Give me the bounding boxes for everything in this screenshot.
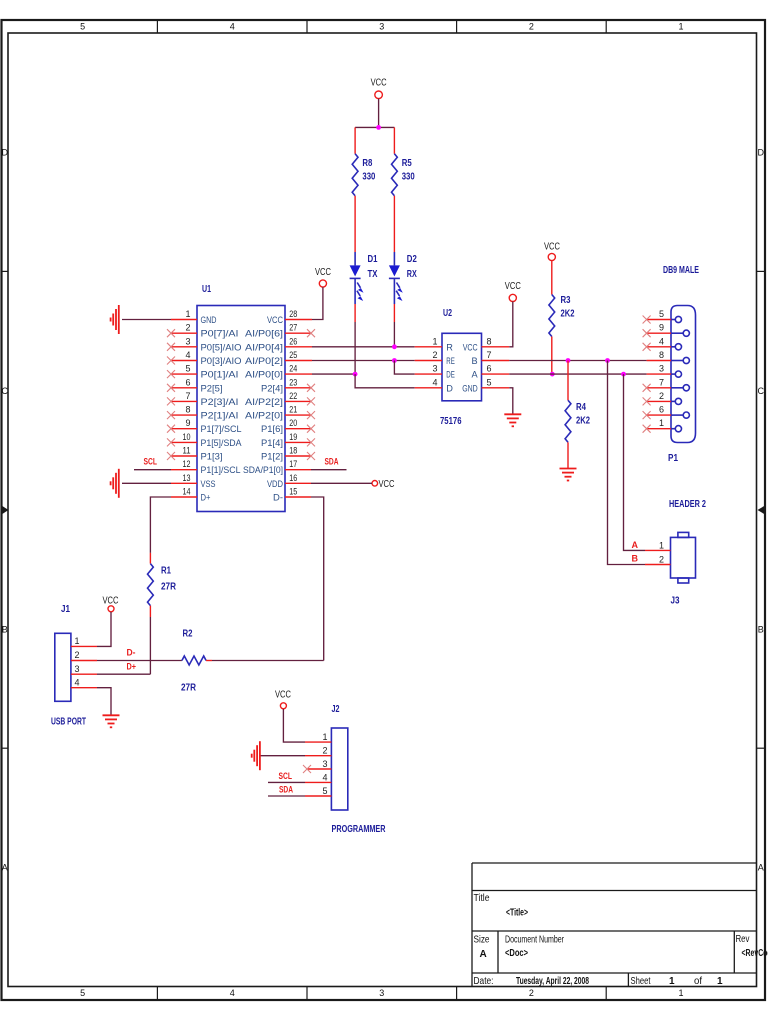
- svg-text:27R: 27R: [181, 683, 197, 694]
- svg-text:1: 1: [75, 636, 80, 646]
- wire B branch to J3 pin2: [608, 361, 646, 565]
- wire J1 pin1 to VCC: [97, 612, 111, 646]
- svg-text:3: 3: [322, 759, 327, 769]
- svg-text:17: 17: [289, 459, 297, 469]
- svg-text:8: 8: [659, 350, 664, 360]
- U1 right pin numbers: [289, 309, 297, 497]
- svg-text:7: 7: [659, 377, 664, 387]
- svg-text:R1: R1: [161, 566, 171, 577]
- svg-text:GND: GND: [201, 315, 217, 325]
- wire R8 to D1: [354, 196, 356, 252]
- wire D net U1 pin24: [312, 373, 355, 375]
- svg-text:4: 4: [432, 377, 437, 387]
- svg-text:10: 10: [183, 432, 191, 442]
- svg-text:VCC: VCC: [544, 241, 560, 252]
- wire D2 to R net: [393, 278, 395, 304]
- junction D net / D1: [353, 372, 358, 377]
- svg-text:2: 2: [432, 350, 437, 360]
- svg-text:21: 21: [289, 405, 297, 415]
- svg-text:RX: RX: [407, 269, 417, 280]
- svg-text:J2: J2: [332, 704, 340, 715]
- wire U1 pin16 to VCC: [311, 482, 372, 484]
- U1 no-connect x marks left pins 2-11: [167, 329, 175, 460]
- junction R3 / A net: [550, 372, 555, 377]
- resistor R1: [147, 553, 176, 606]
- svg-text:P1: P1: [668, 453, 678, 464]
- svg-text:2K2: 2K2: [561, 309, 575, 320]
- svg-text:A: A: [480, 949, 487, 960]
- svg-text:P1[3]: P1[3]: [201, 452, 223, 462]
- ground at R4: [560, 469, 577, 481]
- frame right center arrow: [758, 506, 766, 515]
- junction R net / D2: [392, 344, 397, 349]
- svg-text:HEADER 2: HEADER 2: [669, 499, 706, 510]
- svg-text:Title: Title: [474, 893, 490, 904]
- wire bridge over R8 R5: [355, 126, 394, 128]
- svg-text:1: 1: [659, 418, 664, 428]
- svg-text:DB9 MALE: DB9 MALE: [663, 265, 699, 276]
- wire R3 to A net: [551, 337, 553, 375]
- wire A branch to J3 pin1: [624, 374, 646, 550]
- svg-text:R8: R8: [362, 158, 372, 169]
- svg-text:B: B: [632, 554, 639, 564]
- svg-text:AI/P0[6]: AI/P0[6]: [245, 329, 283, 339]
- U2 left pin stubs: [415, 347, 442, 388]
- svg-text:5: 5: [185, 364, 190, 374]
- svg-text:R: R: [446, 342, 453, 352]
- wire J2 pin5 SDA: [268, 795, 305, 797]
- wire R4 to ground: [567, 442, 569, 468]
- U1 right pin names: [243, 315, 283, 503]
- svg-text:P0[1]/AI: P0[1]/AI: [201, 370, 239, 380]
- svg-text:4: 4: [185, 350, 190, 360]
- svg-text:Tuesday, April 22, 2008: Tuesday, April 22, 2008: [516, 976, 589, 987]
- svg-text:Sheet: Sheet: [631, 976, 651, 987]
- frame column numbers top: [80, 22, 683, 32]
- svg-text:VSS: VSS: [201, 479, 216, 489]
- wire bridge to R8: [354, 127, 356, 153]
- svg-text:23: 23: [289, 377, 297, 387]
- svg-text:330: 330: [402, 172, 415, 183]
- VCC symbol top: [371, 78, 387, 99]
- svg-text:1: 1: [185, 309, 190, 319]
- svg-text:SDA: SDA: [325, 457, 339, 467]
- svg-text:4: 4: [230, 22, 235, 32]
- wire U2 pin5 to ground: [509, 388, 513, 414]
- svg-text:3: 3: [659, 364, 664, 374]
- wire J1 pin4 to ground: [97, 688, 111, 715]
- connector J2 body: [331, 728, 347, 810]
- svg-text:B: B: [758, 624, 764, 634]
- svg-text:3: 3: [432, 364, 437, 374]
- wire VCC to R3: [551, 261, 553, 295]
- ground at U1 pin1 (sideways): [111, 305, 119, 334]
- svg-text:AI/P2[0]: AI/P2[0]: [245, 411, 283, 421]
- svg-text:VCC: VCC: [463, 342, 478, 352]
- svg-text:<Title>: <Title>: [506, 908, 528, 919]
- wire U1 pin13 to ground: [122, 482, 171, 484]
- wire RE net U1 pin25 to U2 pin2: [312, 360, 415, 362]
- wire R1 down to J1 pin3: [149, 606, 151, 617]
- U1 left pin names: [201, 315, 243, 503]
- wire U2 pin8 to VCC: [509, 302, 513, 347]
- svg-text:9: 9: [185, 418, 190, 428]
- wire U1 pin15 D- down: [311, 497, 324, 661]
- svg-text:3: 3: [75, 664, 80, 674]
- svg-text:5: 5: [487, 377, 492, 387]
- svg-text:A: A: [472, 370, 479, 380]
- svg-text:8: 8: [185, 405, 190, 415]
- svg-text:25: 25: [289, 350, 297, 360]
- svg-text:R2: R2: [183, 629, 193, 640]
- wire J1 pin2 to R2: [97, 660, 182, 662]
- resistor R2: [181, 629, 206, 694]
- svg-text:VCC: VCC: [315, 267, 331, 278]
- svg-text:D: D: [757, 148, 764, 158]
- svg-text:B: B: [2, 624, 8, 634]
- svg-text:J3: J3: [671, 596, 680, 607]
- svg-text:Date:: Date:: [474, 976, 494, 987]
- svg-text:2: 2: [529, 22, 534, 32]
- svg-text:AI/P0[2]: AI/P0[2]: [245, 356, 283, 366]
- wire R2 to D- vertical: [206, 660, 212, 662]
- VCC symbol at J2 pin1: [275, 690, 291, 709]
- wire U1 pin1 to ground: [122, 319, 171, 321]
- svg-text:VCC: VCC: [267, 315, 283, 325]
- svg-text:11: 11: [183, 446, 191, 456]
- svg-text:2: 2: [185, 323, 190, 333]
- wire U1 pin12 SCL: [134, 469, 171, 471]
- P1 pin stubs: [647, 320, 672, 429]
- svg-text:D+: D+: [201, 493, 211, 503]
- svg-text:3: 3: [185, 336, 190, 346]
- svg-text:D: D: [2, 148, 9, 158]
- ground at J1 pin4: [103, 715, 120, 727]
- svg-text:P2[4]: P2[4]: [261, 383, 283, 393]
- svg-text:7: 7: [185, 391, 190, 401]
- wire J2 pin2 to ground: [260, 755, 305, 757]
- svg-text:2K2: 2K2: [576, 416, 590, 427]
- title block lines: [472, 863, 757, 987]
- svg-text:R3: R3: [561, 295, 571, 306]
- svg-text:VCC: VCC: [103, 596, 119, 607]
- P1 pin numbers: [659, 309, 664, 428]
- svg-text:13: 13: [183, 473, 191, 483]
- svg-text:8: 8: [487, 336, 492, 346]
- svg-text:75176: 75176: [440, 416, 462, 427]
- U2 left pin numbers: [432, 336, 437, 387]
- svg-text:2: 2: [529, 988, 534, 998]
- svg-text:VCC: VCC: [379, 479, 395, 490]
- wire J2 pin1 to VCC: [283, 709, 305, 742]
- svg-text:Document Number: Document Number: [505, 935, 564, 946]
- svg-text:27R: 27R: [161, 582, 177, 593]
- junction VCC bridge: [376, 125, 381, 130]
- svg-text:15: 15: [289, 487, 297, 497]
- J1 pin numbers: [75, 636, 80, 687]
- wire U1 pin14 D+ down: [150, 497, 171, 553]
- svg-text:6: 6: [487, 364, 492, 374]
- svg-text:SCL: SCL: [279, 771, 293, 781]
- VCC inline symbol at U1 pin16: [372, 479, 395, 490]
- wire RE branch to U2 pin3 DE: [394, 361, 414, 375]
- frame column numbers bottom: [80, 988, 683, 998]
- svg-text:U2: U2: [443, 308, 452, 319]
- svg-text:P1[1]/SCL: P1[1]/SCL: [201, 465, 241, 475]
- svg-text:SDA/P1[0]: SDA/P1[0]: [243, 465, 283, 475]
- svg-text:VCC: VCC: [505, 281, 521, 292]
- svg-text:16: 16: [289, 473, 297, 483]
- svg-text:24: 24: [289, 364, 297, 374]
- svg-text:SCL: SCL: [144, 457, 158, 467]
- junction RE net branch: [392, 358, 397, 363]
- svg-text:1: 1: [432, 336, 437, 346]
- LED D1: [350, 254, 378, 301]
- svg-text:D-: D-: [273, 493, 283, 503]
- resistor R4: [565, 400, 590, 442]
- frame row letters left: [2, 148, 9, 873]
- svg-text:Size: Size: [474, 935, 490, 946]
- svg-text:of: of: [694, 976, 702, 987]
- svg-text:12: 12: [183, 459, 191, 469]
- frame top ticks: [157, 20, 606, 33]
- wire R net U1 pin26 to U2 pin1: [312, 346, 415, 348]
- connector P1 body: [671, 306, 696, 443]
- svg-text:Rev: Rev: [736, 934, 750, 945]
- svg-text:2: 2: [322, 746, 327, 756]
- wire B net U2 pin7 to P1 pin8: [509, 360, 646, 362]
- svg-text:A: A: [758, 863, 764, 873]
- svg-text:C: C: [2, 386, 9, 396]
- svg-text:28: 28: [289, 309, 297, 319]
- wire VCC to R8/R5 bridge: [378, 99, 380, 128]
- VCC symbol at J1 pin1: [103, 596, 119, 612]
- U1 left pin stubs: [171, 320, 197, 498]
- wire D net to U2 pin4: [355, 374, 415, 388]
- svg-text:P2[5]: P2[5]: [201, 383, 223, 393]
- svg-text:C: C: [757, 386, 764, 396]
- svg-text:P1[7]/SCL: P1[7]/SCL: [201, 424, 242, 434]
- svg-text:P0[3]/AIO: P0[3]/AIO: [201, 356, 242, 366]
- resistor R8: [352, 154, 376, 196]
- U2 right pin names: [462, 342, 478, 393]
- IC U2 body: [440, 308, 482, 427]
- svg-text:J1: J1: [61, 604, 70, 615]
- U2 left pin names: [446, 342, 455, 393]
- wire R5 to D2: [393, 196, 395, 252]
- svg-text:P1[2]: P1[2]: [261, 452, 283, 462]
- svg-text:P1[4]: P1[4]: [261, 438, 283, 448]
- wire bridge to R5: [393, 127, 395, 153]
- VCC symbol above R3: [544, 241, 560, 260]
- svg-text:4: 4: [322, 772, 327, 782]
- svg-text:22: 22: [289, 391, 297, 401]
- svg-text:1: 1: [669, 976, 675, 987]
- U2 right pin numbers: [487, 336, 492, 387]
- P1 holes: [675, 316, 689, 431]
- svg-text:1: 1: [678, 988, 683, 998]
- connector J1 body: [55, 633, 71, 701]
- ground at J2 pin2 (sideways): [252, 741, 260, 770]
- svg-text:A: A: [632, 540, 639, 550]
- svg-text:7: 7: [487, 350, 492, 360]
- svg-text:R4: R4: [576, 402, 586, 413]
- ground at U2 pin5: [504, 414, 521, 426]
- wire D1 to D net: [354, 278, 356, 304]
- svg-text:AI/P0[0]: AI/P0[0]: [245, 370, 283, 380]
- VCC symbol at U1 pin28: [315, 267, 331, 287]
- svg-text:GND: GND: [462, 383, 478, 393]
- svg-text:5: 5: [80, 988, 85, 998]
- svg-text:2: 2: [659, 391, 664, 401]
- svg-text:P0[5]/AIO: P0[5]/AIO: [201, 342, 242, 352]
- resistor R5: [392, 154, 416, 196]
- svg-text:<RevCode>: <RevCode>: [742, 948, 768, 959]
- svg-text:B: B: [472, 356, 478, 366]
- svg-text:5: 5: [322, 786, 327, 796]
- U1 right pin stubs: [285, 320, 312, 498]
- ground at U1 pin13 (sideways): [111, 469, 119, 498]
- svg-text:4: 4: [659, 336, 664, 346]
- wire A net U2 pin6 to P1 pin3: [509, 373, 646, 375]
- svg-text:D2: D2: [407, 254, 417, 265]
- J2 pin numbers: [322, 732, 327, 796]
- svg-text:26: 26: [289, 336, 297, 346]
- wire U1 pin28 to VCC: [312, 287, 323, 319]
- J3 pin stubs: [645, 550, 671, 564]
- svg-text:1: 1: [717, 976, 723, 987]
- J2 pin stubs: [305, 742, 331, 796]
- svg-text:D-: D-: [127, 648, 136, 658]
- LED D2: [389, 254, 417, 301]
- J1 pin stubs: [71, 646, 97, 687]
- svg-text:P1[6]: P1[6]: [261, 424, 283, 434]
- svg-text:USB PORT: USB PORT: [51, 717, 86, 728]
- svg-text:4: 4: [230, 988, 235, 998]
- svg-text:A: A: [2, 863, 8, 873]
- svg-text:D: D: [446, 383, 453, 393]
- svg-text:9: 9: [659, 323, 664, 333]
- svg-text:330: 330: [362, 172, 375, 183]
- frame left center arrow: [2, 506, 9, 515]
- svg-text:14: 14: [183, 487, 191, 497]
- svg-text:1: 1: [678, 22, 683, 32]
- connector J3 body: [671, 532, 696, 583]
- svg-text:DE: DE: [446, 370, 455, 380]
- resistor R3: [549, 295, 575, 337]
- svg-text:5: 5: [659, 309, 664, 319]
- wire J1 pin3 to R1: [97, 673, 150, 675]
- svg-text:RE: RE: [446, 356, 455, 366]
- svg-text:R5: R5: [402, 158, 412, 169]
- svg-text:D+: D+: [127, 661, 137, 671]
- wire J2 pin4 SCL: [268, 781, 305, 783]
- svg-text:6: 6: [659, 405, 664, 415]
- frame row letters right: [757, 148, 764, 873]
- svg-text:3: 3: [379, 22, 384, 32]
- P1 hole leads: [671, 320, 683, 429]
- svg-text:6: 6: [185, 377, 190, 387]
- svg-text:P1[5]/SDA: P1[5]/SDA: [201, 438, 243, 448]
- svg-text:<Doc>: <Doc>: [505, 948, 528, 959]
- svg-text:4: 4: [75, 677, 80, 687]
- wire B net to R4: [567, 361, 569, 401]
- svg-text:P2[1]/AI: P2[1]/AI: [201, 411, 239, 421]
- svg-text:VDD: VDD: [267, 479, 283, 489]
- svg-text:P0[7]/AI: P0[7]/AI: [201, 329, 239, 339]
- U1 left pin numbers: [183, 309, 191, 497]
- wire U1 pin17 SDA: [311, 469, 347, 471]
- VCC symbol at U2 pin8: [505, 281, 521, 302]
- svg-text:P2[3]/AI: P2[3]/AI: [201, 397, 239, 407]
- svg-text:PROGRAMMER: PROGRAMMER: [332, 824, 387, 835]
- svg-text:D1: D1: [368, 254, 378, 265]
- svg-text:27: 27: [289, 323, 297, 333]
- svg-text:18: 18: [289, 446, 297, 456]
- frame bottom ticks: [157, 987, 606, 1001]
- svg-text:20: 20: [289, 418, 297, 428]
- svg-text:AI/P0[4]: AI/P0[4]: [245, 342, 283, 352]
- svg-text:1: 1: [659, 540, 664, 550]
- junction B net / R4: [566, 358, 571, 363]
- U2 right pin stubs: [482, 347, 510, 388]
- svg-text:VCC: VCC: [275, 690, 291, 701]
- U1 no-connect x marks right pins 27,23-18: [307, 329, 315, 460]
- frame side ticks: [2, 271, 766, 748]
- junction B net / J3 branch: [605, 358, 610, 363]
- svg-text:19: 19: [289, 432, 297, 442]
- J2 pin3 no-connect x: [303, 765, 311, 773]
- J3 pin numbers: [659, 540, 664, 564]
- svg-text:TX: TX: [368, 269, 378, 280]
- svg-text:SDA: SDA: [279, 785, 293, 795]
- IC U1 body: [197, 284, 285, 512]
- P1 no-connect x marks: [643, 316, 651, 433]
- svg-text:VCC: VCC: [371, 78, 387, 89]
- junction A net / J3 branch: [621, 372, 626, 377]
- svg-text:2: 2: [75, 650, 80, 660]
- svg-text:1: 1: [322, 732, 327, 742]
- svg-text:U1: U1: [202, 284, 211, 295]
- svg-text:AI/P2[2]: AI/P2[2]: [245, 397, 283, 407]
- svg-text:2: 2: [659, 555, 664, 565]
- svg-text:3: 3: [379, 988, 384, 998]
- svg-text:5: 5: [80, 22, 85, 32]
